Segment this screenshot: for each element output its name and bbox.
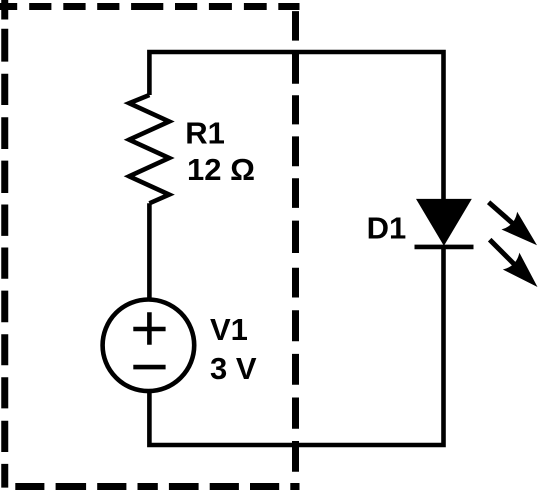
minus sign [133,365,165,370]
voltage source V1 circle [103,300,195,392]
wire bottom rail with verticals [149,249,443,445]
dashed boundary box left edge [1,0,8,488]
svg-text:V1: V1 [210,312,248,347]
wire top rail with left and right verticals [149,52,443,200]
svg-text:D1: D1 [367,210,407,245]
light arrow 2 head [503,253,540,296]
svg-text:3 V: 3 V [210,351,257,386]
svg-text:12 Ω: 12 Ω [187,152,255,187]
LED D1 triangle [416,199,472,246]
resistor R1 [129,95,169,203]
plus sign [133,312,165,345]
dashed boundary box top edge [0,3,300,10]
light arrow 1 head [501,212,540,254]
LED cathode bar [415,245,474,250]
svg-text:R1: R1 [185,116,225,151]
dashed boundary box bottom edge [15,483,299,490]
wire resistor to source [147,203,152,299]
light arrow 1 shaft [489,202,518,228]
dashed boundary box right edge [292,11,299,490]
light arrow 2 shaft [490,240,518,268]
